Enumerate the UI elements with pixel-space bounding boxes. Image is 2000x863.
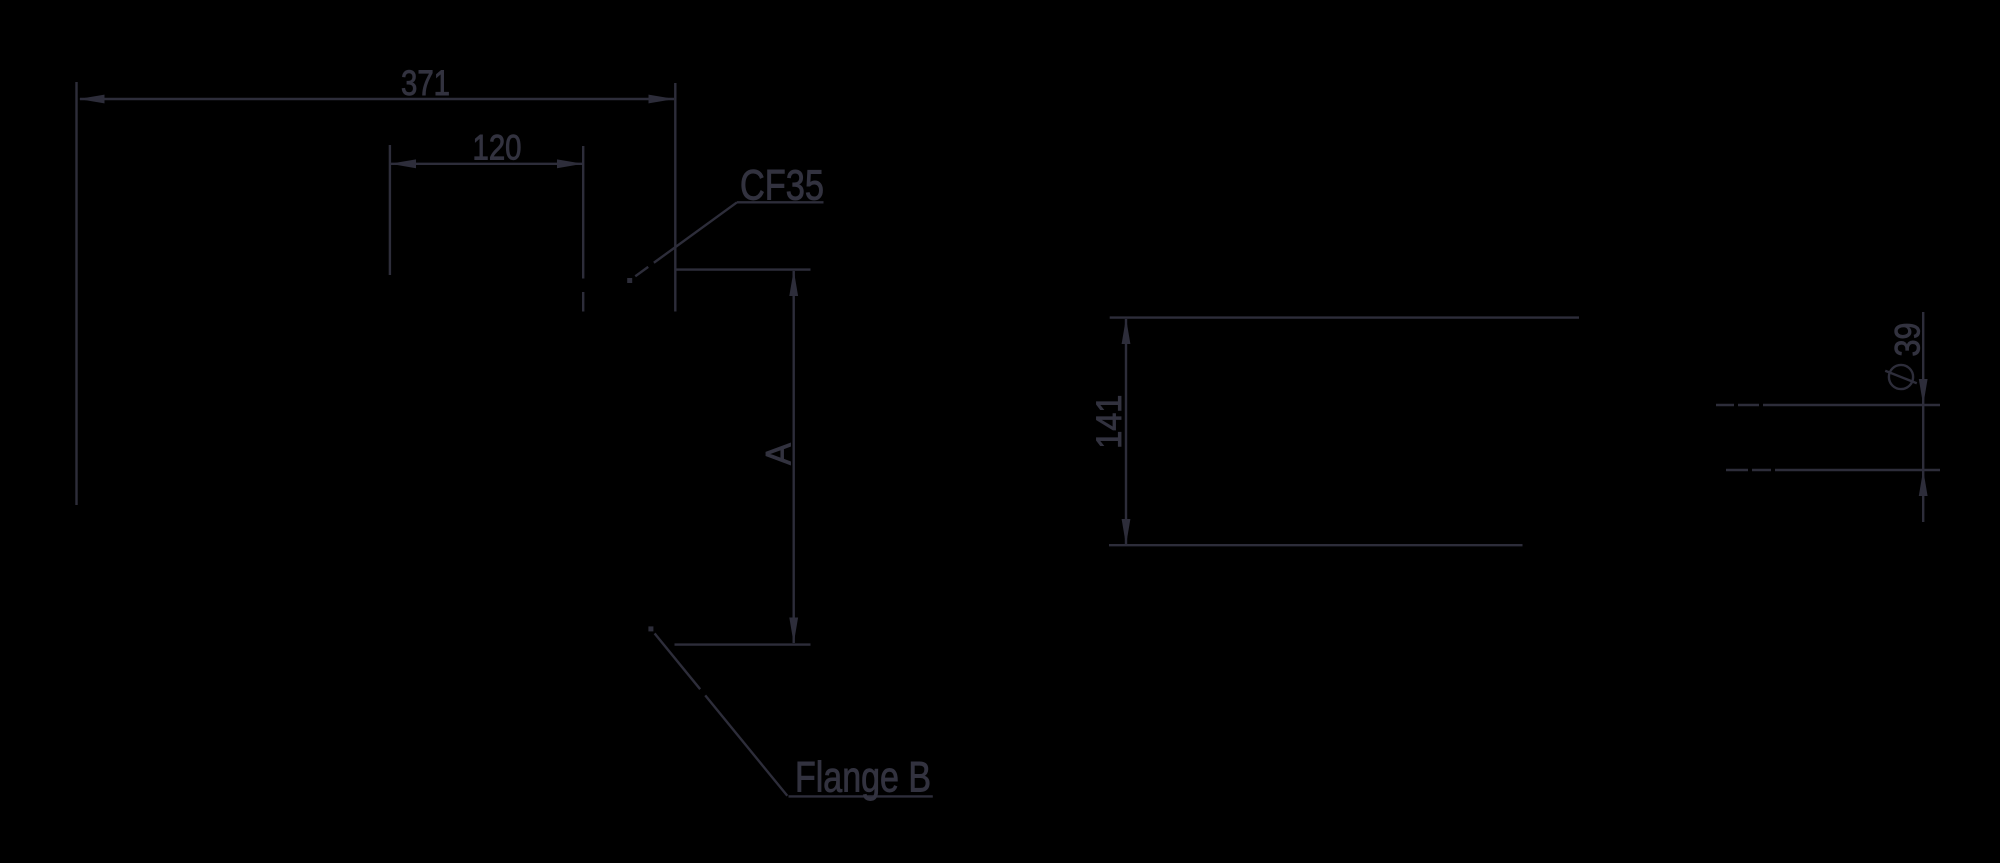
svg-text:Flange B: Flange B — [795, 754, 931, 802]
svg-text:371: 371 — [401, 64, 450, 103]
svg-text:141: 141 — [1090, 395, 1129, 449]
svg-text:120: 120 — [473, 129, 522, 168]
svg-text:CF35: CF35 — [740, 163, 824, 210]
svg-text:A: A — [760, 442, 799, 465]
svg-text:39: 39 — [1889, 323, 1928, 357]
